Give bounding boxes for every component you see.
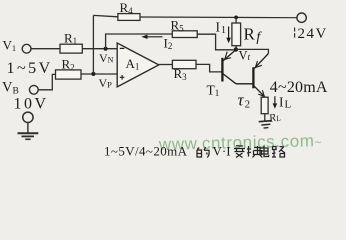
resistor R4 — [118, 14, 140, 21]
ground (load) — [259, 121, 272, 129]
node Vt junction dot — [234, 47, 238, 51]
transistor Q1 T1 — [222, 50, 252, 84]
wire R5 to Vt node — [197, 34, 234, 50]
op-amp A1 — [117, 43, 159, 87]
wire V1 to R1 — [31, 48, 60, 50]
caption hanzi 电 — [260, 146, 269, 157]
resistor R1 — [60, 44, 82, 53]
wire R2 to VP input — [81, 73, 117, 75]
svg-text:V·I: V·I — [213, 144, 231, 159]
node VP junction dot — [91, 72, 95, 76]
caption hanzi 的 — [197, 147, 209, 158]
caption hanzi 变 — [234, 146, 245, 158]
current arrow IL — [274, 96, 276, 104]
svg-text:10V: 10V — [14, 96, 49, 113]
paper background — [0, 0, 346, 161]
current arrow I1 — [228, 27, 230, 39]
svg-text:24V: 24V — [298, 26, 328, 42]
wire R1 to VN input — [82, 48, 117, 50]
label 24V with dashes — [294, 28, 296, 32]
resistor RL — [261, 97, 268, 114]
wire Rf stubs — [235, 17, 237, 49]
svg-text:1~5V: 1~5V — [7, 60, 53, 77]
caption hanzi 路 — [272, 147, 285, 158]
wire +24V top rail — [93, 15, 118, 16]
resistor R2 — [56, 70, 82, 79]
node V1 terminal — [22, 44, 31, 53]
caption hanzi 换 — [247, 146, 262, 158]
wire Vt to T2 emitter — [236, 49, 268, 53]
wire RL to ground — [264, 114, 266, 121]
svg-text:1~5V/4~20mA: 1~5V/4~20mA — [104, 144, 188, 159]
resistor R5 — [172, 31, 197, 38]
transistor Q2 T2 — [253, 54, 268, 97]
svg-text:4~20mA: 4~20mA — [270, 79, 328, 96]
node VN junction dot — [104, 47, 108, 51]
wire R3 to T1 base (step down) — [196, 64, 222, 72]
wire op-amp output to R3 — [159, 64, 173, 66]
wire T2 collector to RL — [264, 96, 266, 97]
resistor Rf — [232, 23, 241, 46]
current arrow I2 — [146, 36, 163, 38]
wire riser R4/VP (x=93.4) — [92, 15, 94, 74]
ground (VB source) — [18, 112, 39, 139]
node +24V terminal — [297, 13, 306, 22]
wire VB to R2 (step up) — [38, 74, 55, 89]
wire riser R5 to VN (x=105.6) — [106, 34, 173, 49]
node rail junction dot (Rf top) — [234, 16, 238, 20]
watermark www.cntronics.com — [158, 131, 323, 154]
resistor R3 — [172, 60, 196, 68]
node VB terminal — [29, 85, 38, 94]
